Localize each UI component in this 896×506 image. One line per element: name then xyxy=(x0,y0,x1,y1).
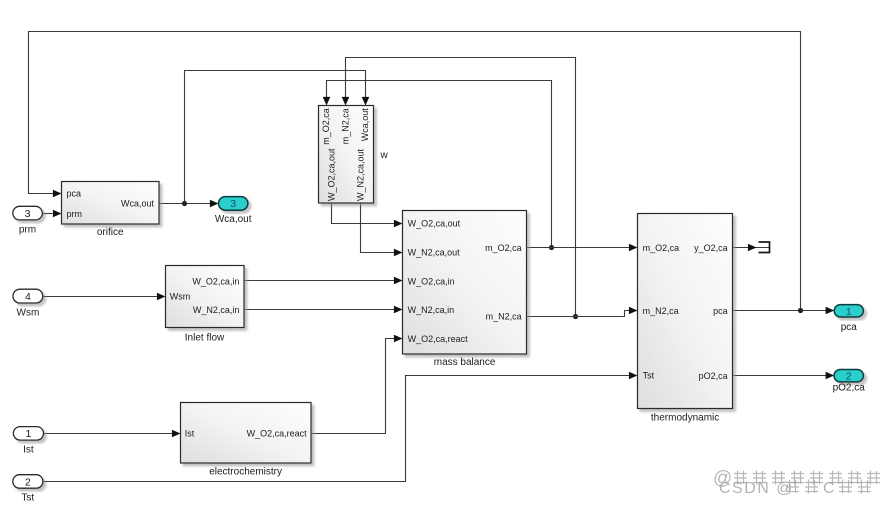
inport 3 prm xyxy=(13,206,43,235)
svg-text:Tst: Tst xyxy=(21,493,34,504)
arrowhead into pca outport xyxy=(826,307,835,315)
svg-text:w: w xyxy=(380,150,389,161)
wire W_O2,ca,in xyxy=(244,280,394,282)
wire Tst inport to thermodynamic xyxy=(44,376,630,482)
outport 3 Wca,out xyxy=(215,197,252,226)
svg-text:orifice: orifice xyxy=(97,227,124,238)
svg-text:prm: prm xyxy=(19,224,36,235)
inport 2 Tst xyxy=(13,475,43,504)
block w (rotated subsystem) xyxy=(319,106,389,204)
arrowhead into thermodynamic m_N2,ca xyxy=(629,307,638,315)
svg-text:1: 1 xyxy=(25,428,31,440)
arrowhead down into w block m_N2,ca input xyxy=(342,97,350,106)
svg-text:W_O2,ca,in: W_O2,ca,in xyxy=(408,276,455,286)
arrowhead into orifice prm input xyxy=(53,210,62,218)
svg-text:W_N2,ca,in: W_N2,ca,in xyxy=(193,305,240,315)
arrowhead into mass balance W_O2,ca,out xyxy=(394,220,403,228)
wire m_O2,ca (mass balance to thermodynamic) xyxy=(527,247,630,249)
svg-text:2: 2 xyxy=(846,371,852,383)
svg-text:thermodynamic: thermodynamic xyxy=(651,413,719,424)
wire y_O2,ca to terminator xyxy=(733,247,770,249)
svg-text:Ist: Ist xyxy=(185,429,195,439)
svg-text:m_O2,ca: m_O2,ca xyxy=(643,243,680,253)
svg-text:m_O2,ca: m_O2,ca xyxy=(485,243,522,253)
svg-text:W_O2,ca,in: W_O2,ca,in xyxy=(192,276,239,286)
svg-text:W_O2,ca,react: W_O2,ca,react xyxy=(247,429,308,439)
svg-text:pca: pca xyxy=(67,188,82,198)
svg-text:Wca,out: Wca,out xyxy=(121,198,155,208)
outport 1 pca xyxy=(834,305,863,334)
svg-text:prm: prm xyxy=(67,209,83,219)
junction on Wca,out wire xyxy=(182,201,187,206)
wire w W_O2,ca,out to mass balance xyxy=(332,203,395,224)
svg-text:W_O2,ca,out: W_O2,ca,out xyxy=(408,219,461,229)
svg-text:Wsm: Wsm xyxy=(17,307,40,318)
arrowhead into thermodynamic m_O2,ca xyxy=(629,244,638,252)
junction on m_N2,ca wire xyxy=(573,314,578,319)
svg-text:m_N2,ca: m_N2,ca xyxy=(643,306,679,316)
block Inlet flow xyxy=(166,266,245,344)
watermark line 2 xyxy=(719,480,871,498)
arrowhead into Inlet flow Wsm xyxy=(157,293,166,301)
arrowhead into mass balance W_N2,ca,out xyxy=(394,249,403,257)
wire orifice Wca,out to outport 3 and feedback to w block xyxy=(159,71,366,204)
svg-text:3: 3 xyxy=(25,208,31,220)
wire W_N2,ca,in xyxy=(244,309,394,311)
arrowhead down into w block Wca,out input xyxy=(362,97,370,106)
svg-text:Inlet flow: Inlet flow xyxy=(185,333,225,344)
outport 2 pO2,ca xyxy=(833,370,866,394)
svg-text:m_N2,ca: m_N2,ca xyxy=(486,311,522,321)
inport 4 Wsm xyxy=(13,289,43,318)
terminator symbol xyxy=(759,242,770,253)
block electrochemistry xyxy=(181,403,312,478)
junction on m_O2,ca wire xyxy=(549,245,554,250)
arrowhead on y_O2,ca wire xyxy=(748,244,757,252)
svg-text:pO2,ca: pO2,ca xyxy=(699,371,728,381)
svg-text:y_O2,ca: y_O2,ca xyxy=(694,243,728,253)
wire m_N2,ca feedback to w block xyxy=(346,58,576,317)
wire Wsm inport to Inlet flow xyxy=(43,296,157,298)
wire m_O2,ca feedback to w block xyxy=(327,81,552,248)
wire w W_N2,ca,out to mass balance xyxy=(361,203,395,253)
arrowhead into mass balance W_O2,ca,in xyxy=(394,277,403,285)
svg-text:Wca,out: Wca,out xyxy=(360,108,370,142)
svg-text:C: C xyxy=(823,480,835,497)
wire W_O2,ca,react (electrochemistry to mass balance) xyxy=(311,339,394,434)
svg-text:m_O2,ca: m_O2,ca xyxy=(321,108,331,145)
svg-text:pca: pca xyxy=(841,322,858,333)
svg-text:W_O2,ca,react: W_O2,ca,react xyxy=(408,334,469,344)
svg-text:4: 4 xyxy=(25,291,31,303)
arrowhead into pO2,ca outport xyxy=(826,372,835,380)
svg-text:1: 1 xyxy=(846,306,852,318)
svg-text:m_N2,ca: m_N2,ca xyxy=(341,108,351,144)
arrowhead into Wca,out outport xyxy=(210,200,219,208)
svg-text:pca: pca xyxy=(713,306,728,316)
wire m_N2,ca (mass balance to thermodynamic) xyxy=(527,311,630,317)
svg-text:mass balance: mass balance xyxy=(434,357,496,368)
watermark line 1 xyxy=(713,468,880,489)
arrowhead down into w block m_O2,ca input xyxy=(323,97,331,106)
wire pO2,ca to outport 2 xyxy=(733,375,830,377)
block thermodynamic xyxy=(638,214,733,424)
svg-text:pO2,ca: pO2,ca xyxy=(833,382,866,393)
block mass balance xyxy=(403,211,527,368)
svg-text:2: 2 xyxy=(25,476,31,488)
arrowhead into thermodynamic Tst xyxy=(629,372,638,380)
svg-text:Tst: Tst xyxy=(643,370,655,380)
wire prm inport to orifice xyxy=(42,213,52,215)
inport 1 Ist xyxy=(13,427,43,456)
svg-text:electrochemistry: electrochemistry xyxy=(209,467,282,478)
svg-text:W_N2,ca,out: W_N2,ca,out xyxy=(356,148,366,201)
junction on pca wire xyxy=(798,308,803,313)
svg-text:W_O2,ca,out: W_O2,ca,out xyxy=(327,148,337,201)
arrowhead into mass balance W_O2,ca,react xyxy=(394,335,403,343)
arrowhead into orifice pca input xyxy=(53,190,62,198)
wire Ist inport to electrochemistry xyxy=(44,433,173,435)
arrowhead into electrochemistry Ist xyxy=(172,430,181,438)
wire pca feedback loop (thermodynamic pca out -> top -> orifice pca in) xyxy=(29,32,830,311)
arrowhead into mass balance W_N2,ca,in xyxy=(394,306,403,314)
svg-text:Wca,out: Wca,out xyxy=(215,214,252,225)
svg-text:W_N2,ca,out: W_N2,ca,out xyxy=(408,248,461,258)
svg-text:W_N2,ca,in: W_N2,ca,in xyxy=(408,305,455,315)
svg-text:CSDN @: CSDN @ xyxy=(719,480,794,497)
block orifice xyxy=(62,182,160,239)
svg-text:Ist: Ist xyxy=(23,445,34,456)
svg-text:Wsm: Wsm xyxy=(170,292,191,302)
svg-text:3: 3 xyxy=(230,198,236,210)
